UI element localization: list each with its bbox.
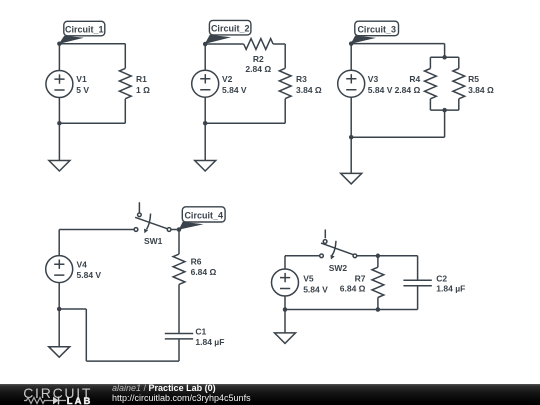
svg-text:3.84 Ω: 3.84 Ω [296, 85, 322, 95]
svg-text:1 Ω: 1 Ω [136, 85, 150, 95]
svg-text:R3: R3 [296, 74, 307, 84]
svg-text:3.84 Ω: 3.84 Ω [468, 85, 494, 95]
svg-text:2.84 Ω: 2.84 Ω [395, 85, 421, 95]
svg-text:V5: V5 [303, 274, 314, 284]
svg-text:Circuit_1: Circuit_1 [65, 25, 104, 35]
svg-text:6.84 Ω: 6.84 Ω [191, 267, 217, 277]
svg-text:5.84 V: 5.84 V [222, 85, 247, 95]
svg-text:1.84 µF: 1.84 µF [436, 283, 465, 293]
svg-text:Circuit_2: Circuit_2 [211, 24, 250, 34]
svg-text:LAB: LAB [67, 396, 92, 405]
svg-text:SW1: SW1 [144, 236, 163, 246]
svg-text:SW2: SW2 [329, 263, 348, 273]
svg-text:R2: R2 [253, 54, 264, 64]
svg-text:C2: C2 [436, 273, 447, 283]
svg-text:5.84 V: 5.84 V [368, 85, 393, 95]
svg-text:V3: V3 [368, 74, 379, 84]
svg-text:R1: R1 [136, 74, 147, 84]
svg-text:6.84 Ω: 6.84 Ω [340, 284, 366, 294]
svg-text:C1: C1 [195, 326, 206, 336]
svg-text:R4: R4 [409, 74, 420, 84]
svg-text:5 V: 5 V [76, 85, 89, 95]
svg-text:R5: R5 [468, 74, 479, 84]
svg-text:V2: V2 [222, 74, 233, 84]
svg-text:Circuit_3: Circuit_3 [357, 24, 396, 34]
svg-text:5.84 V: 5.84 V [303, 284, 328, 294]
svg-text:1.84 µF: 1.84 µF [195, 337, 224, 347]
svg-text:5.84 V: 5.84 V [77, 270, 102, 280]
svg-text:2.84 Ω: 2.84 Ω [245, 64, 271, 74]
svg-text:V4: V4 [77, 259, 88, 269]
svg-text:V1: V1 [76, 74, 87, 84]
svg-text:R7: R7 [355, 274, 366, 284]
svg-text:Circuit_4: Circuit_4 [184, 211, 223, 221]
svg-text:R6: R6 [191, 256, 202, 266]
